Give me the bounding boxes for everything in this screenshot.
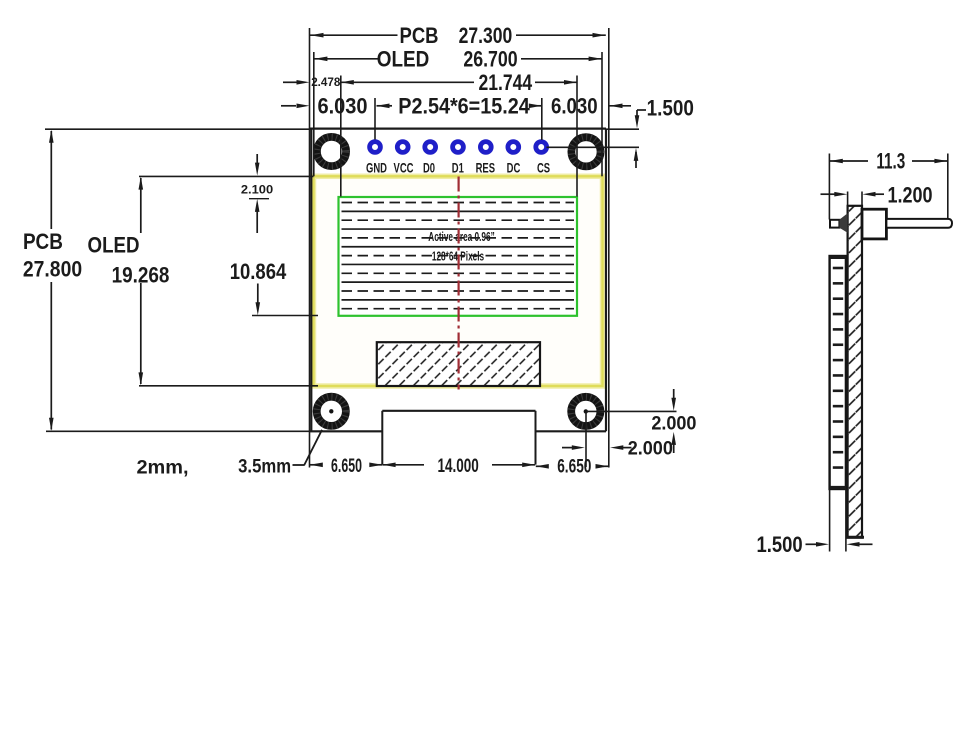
svg-text:1.500: 1.500: [757, 533, 803, 558]
svg-text:19.268: 19.268: [112, 263, 170, 288]
svg-text:6.650: 6.650: [331, 456, 362, 477]
svg-text:27.300: 27.300: [459, 24, 513, 49]
svg-text:1.200: 1.200: [887, 184, 932, 208]
svg-text:RES: RES: [476, 161, 496, 176]
svg-text:10.864: 10.864: [230, 260, 287, 284]
svg-text:6.030: 6.030: [551, 94, 598, 119]
svg-text:2.100: 2.100: [241, 183, 273, 197]
svg-text:6.030: 6.030: [317, 94, 367, 119]
svg-text:CS: CS: [537, 161, 550, 176]
svg-text:VCC: VCC: [394, 161, 414, 176]
svg-text:26.700: 26.700: [463, 48, 517, 72]
svg-text:PCB: PCB: [23, 229, 63, 254]
svg-text:D0: D0: [423, 161, 435, 176]
svg-text:OLED: OLED: [88, 234, 140, 258]
svg-text:1.500: 1.500: [647, 96, 694, 121]
svg-text:11.3: 11.3: [876, 150, 905, 175]
svg-text:P2.54*6=15.24: P2.54*6=15.24: [398, 95, 530, 119]
svg-text:2.000: 2.000: [628, 437, 673, 459]
svg-text:21.744: 21.744: [478, 71, 532, 96]
svg-text:2.000: 2.000: [651, 412, 696, 434]
svg-text:3.5mm: 3.5mm: [238, 456, 291, 477]
svg-text:Active area 0.96”: Active area 0.96”: [428, 231, 494, 245]
svg-text:DC: DC: [507, 161, 521, 176]
svg-text:27.800: 27.800: [23, 257, 82, 281]
svg-text:OLED: OLED: [377, 47, 429, 72]
svg-text:2.478: 2.478: [311, 75, 341, 89]
svg-text:GND: GND: [366, 161, 387, 176]
svg-text:PCB: PCB: [400, 23, 439, 48]
svg-text:2mm,: 2mm,: [136, 457, 188, 478]
svg-text:14.000: 14.000: [437, 456, 478, 477]
svg-text:D1: D1: [452, 161, 464, 176]
svg-text:6.650: 6.650: [557, 455, 591, 477]
